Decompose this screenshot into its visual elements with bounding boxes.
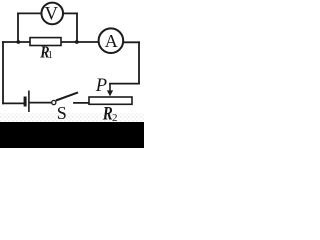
rheostat R2	[89, 97, 132, 104]
wire bottom-left to battery	[3, 102, 24, 104]
wire vertical right of voltmeter branch	[76, 13, 78, 42]
battery positive plate (long thin)	[28, 91, 30, 113]
halftone noise strip above bottom bar	[0, 113, 144, 122]
svg-text:V: V	[45, 4, 59, 24]
junction node right	[75, 40, 79, 44]
wire right outer vertical	[138, 42, 140, 83]
wire top-left horizontal to voltmeter	[18, 12, 41, 14]
wire switch to rheostat	[74, 102, 89, 104]
wire top-right from voltmeter to right corner	[63, 12, 77, 14]
wire main row left segment	[3, 41, 30, 43]
wire left outer vertical	[2, 42, 4, 103]
svg-text:1: 1	[48, 50, 53, 61]
bottom black bar	[0, 122, 144, 148]
resistor R1	[30, 38, 61, 46]
slider arrow P	[109, 84, 111, 91]
switch S pivot	[52, 100, 56, 104]
wire slider horizontal	[110, 83, 139, 85]
ammeter U-A	[99, 28, 124, 53]
wire ammeter to right corner	[124, 41, 139, 43]
svg-text:S: S	[57, 103, 67, 123]
wire R1 to ammeter	[61, 41, 98, 43]
voltmeter U-V	[41, 3, 63, 25]
svg-text:A: A	[105, 31, 118, 51]
battery negative plate (short thick)	[24, 97, 27, 107]
svg-text:P: P	[95, 76, 107, 96]
junction node left	[16, 40, 20, 44]
wire battery to switch	[30, 102, 52, 104]
wire vertical left of voltmeter branch	[17, 13, 19, 42]
switch blade	[56, 92, 78, 100]
